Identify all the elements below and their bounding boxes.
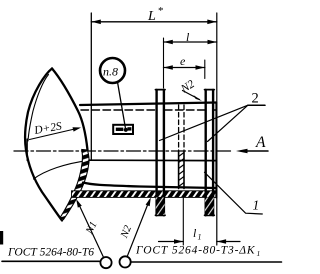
pipe top hidden bore line (dashed) [81, 109, 216, 111]
dimension l1 [159, 198, 241, 245]
bell outer silhouette [25, 69, 62, 221]
weld leader N2 [127, 200, 149, 257]
bell upper right edge curve [52, 69, 88, 151]
bell throat thin curve [34, 160, 90, 179]
edge ink mark [0, 231, 3, 245]
dimension L* [91, 5, 217, 24]
svg-text:ГОСТ 5264-80-Т6: ГОСТ 5264-80-Т6 [7, 247, 94, 259]
bell inner thin curve upper [28, 75, 49, 142]
callout circle п.8 [100, 58, 125, 83]
svg-text:1: 1 [257, 249, 261, 258]
dimension l [164, 30, 217, 88]
partition hidden lines (top half) [179, 105, 184, 151]
D+2S arrow [30, 128, 80, 140]
partition section (bottom half) [178, 151, 180, 189]
pipe bottom wall band (section, hatched) [72, 191, 216, 198]
pipe top outer line [80, 103, 216, 106]
bell wall hatched band [61, 150, 90, 220]
svg-text:A: A [255, 134, 266, 151]
centerline [14, 150, 232, 152]
inner line y=160 [89, 159, 216, 161]
svg-text:1: 1 [253, 198, 260, 213]
flange 2 (right ring) [205, 90, 215, 216]
weld leader N1 [78, 202, 104, 258]
svg-text:L: L [147, 9, 156, 24]
wire: weld-joint extension line x=91 [90, 13, 92, 160]
wire: pipe right end edge / extension x=217 [216, 13, 218, 245]
dimension e [164, 54, 205, 79]
inner bottom thick line [83, 183, 216, 189]
svg-text:*: * [158, 5, 164, 17]
svg-text:1: 1 [198, 233, 202, 242]
svg-text:2: 2 [252, 91, 259, 107]
svg-text:п.8: п.8 [103, 65, 118, 79]
svg-text:e: e [180, 54, 186, 68]
flange 2 (left ring) [156, 90, 166, 216]
svg-text:ГОСТ 5264-80-Т3-ΔК: ГОСТ 5264-80-Т3-ΔК [135, 245, 256, 257]
marking stamp rectangle [113, 125, 133, 134]
